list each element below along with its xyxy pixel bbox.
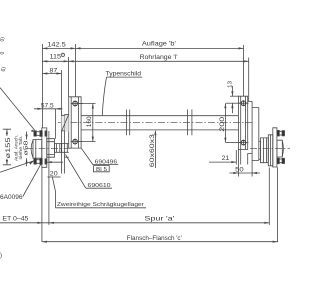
Spur dimension line with ET segment xyxy=(0,222,269,224)
arrowhead Auflage left xyxy=(76,47,81,49)
right spacer ring xyxy=(268,135,273,166)
plate top edge extension xyxy=(230,95,238,97)
left bracket plate xyxy=(69,97,81,148)
svg-text:200: 200 xyxy=(220,116,226,132)
dim o155 ticks xyxy=(3,129,11,165)
right hub centreline xyxy=(250,148,290,150)
svg-text:Bl 5: Bl 5 xyxy=(96,167,107,173)
right bearing housing step xyxy=(259,141,261,159)
tube centreline xyxy=(58,122,252,124)
hole bottom extension xyxy=(226,142,241,144)
dimension line 160 xyxy=(92,104,94,142)
right bracket hole top xyxy=(241,101,246,106)
tube end cap left inner xyxy=(61,115,64,131)
dim 20 arrow line xyxy=(47,161,63,163)
svg-text:142.5: 142.5 xyxy=(47,41,66,48)
bearing note leader xyxy=(52,177,55,192)
svg-text:50: 50 xyxy=(235,166,244,173)
svg-text:ø155: ø155 xyxy=(6,137,12,159)
right bracket plate xyxy=(238,96,247,149)
extension line bracket centre right xyxy=(243,45,245,96)
extension line 87 right / 20 xyxy=(60,70,62,174)
tube break lines pair 2 xyxy=(188,110,192,136)
svg-text:Flansch–Flansch 'c': Flansch–Flansch 'c' xyxy=(127,235,182,242)
extension line left reference (flange face plane) xyxy=(41,44,43,128)
extension line tube end left xyxy=(68,57,70,97)
left hub centreline xyxy=(26,147,72,149)
right bracket inner edges xyxy=(241,96,246,149)
extension line 57.5 right xyxy=(55,109,57,139)
svg-text:ø58: ø58 xyxy=(23,141,29,156)
extension wheel centre plane right xyxy=(268,168,270,225)
extension flange face right xyxy=(277,167,279,242)
hole top extension xyxy=(226,102,241,104)
spindle shaft to bracket xyxy=(62,144,69,153)
right wheel flange xyxy=(273,128,277,167)
step line below spindle xyxy=(65,156,69,158)
axle tube top edge xyxy=(81,115,238,117)
dim 160 extension bottom xyxy=(78,141,96,143)
svg-text:115: 115 xyxy=(50,54,62,61)
dimension line 115 / Rohrlange xyxy=(42,60,248,62)
mounting plate right xyxy=(252,108,259,161)
left bearing box xyxy=(55,144,62,153)
dim 200 xyxy=(224,103,226,142)
arrowhead 115 left xyxy=(42,60,47,62)
dimension line 57.5 xyxy=(34,108,63,110)
svg-text:siehe Tab.: siehe Tab. xyxy=(18,136,23,160)
right bottom wheel bolt xyxy=(277,158,279,164)
svg-text:Zweireihige Schrägkugellager: Zweireihige Schrägkugellager xyxy=(57,202,144,208)
svg-text:Auflage 'b': Auflage 'b' xyxy=(142,41,176,48)
left spindle block xyxy=(47,139,55,158)
sheet box Bl 5 xyxy=(94,166,110,172)
adapter strip right xyxy=(248,101,252,153)
leader from margin to bottom bolt xyxy=(0,161,34,173)
arrowhead 142.5 right xyxy=(71,47,76,49)
Flansch-Flansch dimension line xyxy=(42,241,278,243)
extension line tube end right xyxy=(248,58,250,102)
Typenschild leader xyxy=(102,77,106,115)
svg-text:Rohrlange 'l': Rohrlange 'l' xyxy=(140,54,178,61)
dim 160 extension top xyxy=(78,103,96,105)
left wheel flange xyxy=(42,128,47,167)
left top wheel bolt xyxy=(34,131,36,136)
arrowhead Auflage right xyxy=(239,47,244,49)
Typenschild underline xyxy=(107,76,143,78)
svg-text:0: 0 xyxy=(0,52,6,55)
leader from margin note to top bolt xyxy=(0,88,36,133)
svg-text:6A0096: 6A0096 xyxy=(0,194,23,201)
left bottom wheel bolt xyxy=(34,159,36,164)
leader 690610 xyxy=(66,155,86,189)
tube break lines pair 1 xyxy=(127,110,130,136)
bearing note box xyxy=(55,191,146,208)
leader 690496 xyxy=(81,148,93,164)
dimension line 87 xyxy=(42,73,61,75)
right bearing housing xyxy=(260,138,268,163)
arrowhead Rohrlange left xyxy=(69,60,74,62)
leader 60x60x3 xyxy=(154,131,156,168)
dim o58 line xyxy=(26,132,28,167)
arrowhead Rohrlange right xyxy=(244,60,249,62)
arrowhead 57.5 right xyxy=(56,108,61,110)
arrowhead 57.5 left xyxy=(37,108,42,110)
axle tube bottom edge xyxy=(81,129,238,131)
svg-text:57.5: 57.5 xyxy=(41,103,54,110)
svg-text:): ) xyxy=(0,253,2,259)
dim 13 xyxy=(231,86,233,113)
leader 6A0096 xyxy=(23,164,41,196)
washer line xyxy=(66,144,68,153)
right hub cap xyxy=(277,140,282,157)
arrowhead 142.5 left xyxy=(42,47,47,49)
end cap diagonal xyxy=(62,115,69,131)
arrowhead 87 right xyxy=(56,72,61,74)
left bracket hole bottom xyxy=(73,139,78,144)
left hub cap xyxy=(33,140,42,159)
svg-text:Spur 'a': Spur 'a' xyxy=(144,215,174,222)
arrowhead 115 right xyxy=(64,60,69,62)
svg-text:87: 87 xyxy=(50,67,58,74)
svg-text:Typenschild: Typenschild xyxy=(106,71,142,78)
tube end cap left outer xyxy=(65,115,69,132)
svg-text:160: 160 xyxy=(87,116,93,128)
extension line bracket centre left xyxy=(75,44,77,97)
svg-text:21: 21 xyxy=(222,155,230,162)
svg-text:13: 13 xyxy=(227,81,233,88)
svg-text:6): 6) xyxy=(1,67,7,72)
svg-text:ET 0–45: ET 0–45 xyxy=(2,216,29,223)
left bracket inner edges xyxy=(71,97,78,148)
extension wheel centre plane left xyxy=(48,131,50,225)
right bracket hole bottom xyxy=(241,140,246,145)
extensions below right bracket xyxy=(238,150,252,177)
svg-text:0): 0) xyxy=(0,37,6,42)
dim o155 line xyxy=(6,129,8,165)
footnote circle symbol xyxy=(61,53,64,56)
svg-text:60x60x3: 60x60x3 xyxy=(150,133,156,167)
left bracket hole top xyxy=(73,101,78,106)
arrowhead 87 left xyxy=(42,72,47,74)
right top wheel bolt xyxy=(277,130,279,136)
dimension line 142.5 / Auflage 'b' xyxy=(42,47,243,49)
extension flange face left lower xyxy=(41,167,43,242)
